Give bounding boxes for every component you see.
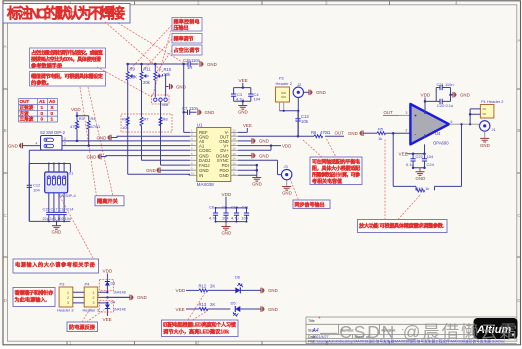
svg-text:GND: GND — [205, 110, 215, 115]
connector J1 — [478, 121, 497, 132]
svg-text:为此电源输入.: 为此电源输入. — [15, 296, 48, 304]
capacitors C15 C17 C16 C14 — [43, 193, 74, 222]
svg-text:3: 3 — [406, 111, 408, 115]
note box: 占空比调节 — [172, 45, 202, 55]
svg-text:的参数。: 的参数。 — [31, 79, 52, 87]
svg-text:A4: A4 — [312, 328, 319, 334]
wire feedback loop — [393, 125, 461, 190]
ground (opamp vee earth) — [412, 166, 426, 181]
svg-text:匹配电阻根据LED亮度和个人习惯: 匹配电阻根据LED亮度和个人习惯 — [163, 321, 237, 329]
capacitor C13 — [295, 111, 309, 138]
svg-text:2: 2 — [93, 296, 95, 300]
svg-text:4.7u: 4.7u — [231, 216, 239, 221]
svg-text:GND: GND — [259, 139, 269, 144]
svg-text:2: 2 — [406, 129, 408, 133]
svg-text:A: A — [4, 44, 7, 49]
capacitor C11 104 — [242, 205, 250, 222]
note box: 香蕉端子 — [13, 288, 55, 307]
chip pin stubs — [190, 132, 238, 175]
wire OUT — [238, 135, 344, 137]
svg-text:GND: GND — [282, 191, 292, 196]
svg-text:GND: GND — [219, 173, 229, 178]
switch S2 SW DIP-2 — [40, 130, 66, 150]
svg-text:C10: C10 — [231, 205, 239, 210]
wire PDI PDO GND tie — [238, 164, 258, 178]
ground (PDI earth) — [252, 178, 262, 187]
capacitor C21 110n — [436, 82, 453, 101]
power VDD (top) — [103, 269, 113, 282]
note box: 电源输入 — [13, 259, 99, 273]
capacitor C7 110n — [182, 106, 199, 115]
node dots on rail — [126, 63, 185, 66]
svg-text:R12: R12 — [199, 284, 207, 289]
note box: 放大功能 — [358, 220, 448, 233]
ground (J3 earth) — [282, 180, 292, 196]
ground GND (power mid) — [107, 295, 146, 301]
capacitor C10 4.7u — [231, 205, 239, 222]
svg-text:104: 104 — [242, 216, 249, 221]
svg-text:GND: GND — [97, 135, 107, 140]
svg-text:Header 2: Header 2 — [276, 81, 293, 86]
svg-text:GND: GND — [268, 288, 278, 293]
connector J2 — [293, 82, 303, 98]
connector J3 sync — [282, 164, 292, 180]
svg-text:GND: GND — [316, 90, 326, 95]
svg-text:15: 15 — [233, 152, 237, 156]
svg-text:13: 13 — [233, 161, 237, 165]
ground GND (J2) — [304, 90, 326, 96]
svg-text:OPA690: OPA690 — [433, 141, 449, 146]
wire GND pin row9 — [146, 167, 190, 173]
svg-text:VDD: VDD — [222, 192, 232, 197]
svg-text:VEE: VEE — [243, 123, 252, 128]
svg-text:VEE: VEE — [239, 78, 248, 83]
svg-text:D6: D6 — [235, 275, 241, 280]
svg-text:占空比调节: 占空比调节 — [174, 47, 200, 54]
power VDD (cap bank) — [222, 192, 232, 208]
svg-text:3: 3 — [93, 301, 95, 305]
svg-text:U1: U1 — [197, 122, 203, 127]
net label VEE (V- pin) — [238, 123, 252, 132]
svg-text:2: 2 — [64, 137, 66, 141]
resistor R4 470 pullup — [77, 116, 100, 147]
ground GND (cap bank) — [48, 220, 65, 234]
resistor R13 2K — [199, 302, 231, 311]
svg-text:C21 110n: C21 110n — [437, 82, 454, 87]
potentiometer R11 — [140, 64, 152, 117]
svg-text:C22: C22 — [416, 154, 424, 159]
svg-text:2K: 2K — [210, 284, 215, 289]
power VDD (opamp) — [421, 93, 437, 115]
svg-text:GND: GND — [259, 153, 269, 158]
svg-text:P3: P3 — [60, 282, 66, 287]
dashed box R group — [121, 114, 172, 132]
capacitor C12 104 — [27, 164, 41, 222]
zone ticks top — [135, 1, 390, 5]
svg-text:占空比通过调定调节节点变化，或者直: 占空比通过调定调节节点变化，或者直 — [31, 49, 104, 57]
svg-text:COSC: COSC — [199, 148, 211, 153]
svg-text:放大功能 可根据具体精度需求调整参数.: 放大功能 可根据具体精度需求调整参数. — [358, 222, 445, 230]
resistor R3 470 pullup — [70, 107, 85, 142]
svg-text:同步信号输出: 同步信号输出 — [295, 202, 325, 209]
resistor R7 10k (in dashed box) — [140, 117, 190, 161]
wire A0 — [62, 140, 190, 142]
svg-text:GND: GND — [222, 231, 232, 236]
svg-text:A: A — [517, 38, 520, 43]
svg-text:1: 1 — [64, 142, 66, 146]
svg-text:R3: R3 — [79, 116, 85, 121]
svg-text:6: 6 — [451, 120, 453, 124]
svg-text:C24: C24 — [427, 162, 435, 167]
svg-text:SW DIP-4: SW DIP-4 — [58, 193, 77, 198]
svg-text:D5: D5 — [231, 301, 237, 306]
note box: amplitude resistor — [30, 72, 106, 87]
note box: balance resistor — [310, 157, 362, 185]
ground (C3C4 earth) — [238, 101, 248, 114]
svg-text:香蕉端子和排针亦: 香蕉端子和排针亦 — [15, 289, 55, 297]
wire COSC — [29, 150, 190, 221]
capacitor C3 4.7u — [231, 86, 251, 102]
svg-text:R15: R15 — [416, 186, 424, 191]
potentiometer R9 50K — [126, 64, 137, 174]
wire DV+ joins VDD — [238, 146, 271, 151]
note box: 频率调节 — [172, 34, 202, 44]
svg-text:S1: S1 — [69, 171, 75, 176]
note box: 同步信号输出 — [293, 200, 330, 209]
svg-text:470Ω: 470Ω — [91, 124, 101, 129]
svg-text:11: 11 — [233, 172, 236, 176]
ground (cap bank earth) — [222, 222, 232, 236]
svg-text:Header 3: Header 3 — [57, 308, 74, 313]
svg-text:GND: GND — [87, 154, 97, 159]
svg-text:104: 104 — [427, 154, 434, 159]
title block — [306, 317, 517, 344]
svg-text:P4: P4 — [85, 282, 91, 287]
ground GND (led1) — [261, 288, 278, 294]
svg-text:GND: GND — [8, 143, 18, 148]
svg-text:0: 0 — [51, 111, 54, 116]
svg-text:3: 3 — [67, 301, 69, 305]
svg-text:GND: GND — [146, 168, 156, 173]
svg-text:W6: W6 — [162, 102, 169, 107]
svg-text:—CSDN @晨借懒云霜: —CSDN @晨借懒云霜 — [320, 322, 517, 342]
capacitor C9 104 — [222, 205, 229, 222]
capacitor C20 0.1u — [437, 93, 453, 107]
svg-text:Title: Title — [308, 319, 315, 323]
wire top rail — [128, 63, 184, 65]
wire R10 wiper to GND branch — [166, 74, 169, 97]
capacitor C4 104 — [248, 92, 261, 102]
svg-text:接拨到占空比为50%，具体使用请: 接拨到占空比为50%，具体使用请 — [31, 55, 102, 63]
svg-text:+: + — [414, 114, 417, 120]
note box: 标注NC的默认为不焊接 — [3, 4, 130, 24]
svg-text:频率调节: 频率调节 — [174, 36, 194, 43]
svg-text:110n: 110n — [191, 58, 201, 63]
note box: LED current — [162, 320, 239, 337]
svg-text:防电源反接: 防电源反接 — [69, 323, 96, 331]
svg-text:17: 17 — [233, 142, 237, 146]
svg-text:阻，具体大小根据适配: 阻，具体大小根据适配 — [312, 165, 360, 172]
ground GND + resistor R5 1k (inverting input) — [348, 127, 410, 142]
ground GND (DGND pin) — [238, 153, 269, 159]
svg-text:DV+: DV+ — [220, 148, 229, 153]
diode D4 1N4148 — [105, 301, 126, 317]
svg-text:470Ω: 470Ω — [320, 130, 330, 135]
svg-text:4: 4 — [36, 142, 38, 146]
svg-text:1R: 1R — [187, 65, 192, 70]
switch S1 SW DIP-4 — [45, 164, 77, 198]
zone ticks sides — [3, 89, 521, 257]
svg-text:GND: GND — [416, 176, 426, 181]
svg-text:VDD: VDD — [176, 288, 186, 293]
svg-text:20k: 20k — [164, 72, 172, 77]
svg-text:GND: GND — [207, 62, 217, 67]
svg-text:频率控制电: 频率控制电 — [174, 19, 200, 26]
ground GND (led2) — [261, 306, 278, 312]
svg-text:12: 12 — [233, 166, 237, 170]
svg-text:0.1u: 0.1u — [406, 162, 414, 167]
note box: 频率控制电压输出 — [172, 18, 202, 32]
capacitor C22 0.1u — [406, 154, 425, 168]
svg-text:0: 0 — [41, 111, 44, 116]
svg-text:1: 1 — [41, 105, 44, 110]
svg-text:考相关电容值: 考相关电容值 — [312, 178, 342, 185]
net label OUT (opamp input) — [383, 110, 410, 115]
wire P2/J2 to OUT — [280, 98, 299, 137]
ground GND (chip GND pin row2) — [97, 135, 191, 141]
svg-text:2K: 2K — [210, 302, 215, 307]
svg-text:R6: R6 — [311, 130, 317, 135]
svg-text:C11: C11 — [242, 205, 249, 210]
svg-text:VEE: VEE — [399, 152, 408, 157]
svg-text:R13: R13 — [199, 302, 207, 307]
svg-text:B: B — [4, 128, 7, 133]
capacitor C24 104 — [422, 154, 435, 168]
zone ticks bottom — [67, 341, 390, 345]
svg-text:GND: GND — [480, 143, 490, 148]
svg-text:1N4148: 1N4148 — [113, 308, 126, 312]
svg-text:电源输入的大小请参考相关手册: 电源输入的大小请参考相关手册 — [15, 261, 96, 269]
svg-text:P2: P2 — [279, 76, 285, 81]
net label VDD (V+ pin) — [238, 144, 291, 149]
note box: 隔离开关 — [95, 196, 124, 206]
svg-text:B: B — [517, 128, 520, 133]
svg-text:GND: GND — [460, 93, 470, 98]
svg-text:OUT: OUT — [384, 110, 394, 115]
svg-text:1: 1 — [51, 117, 54, 122]
svg-text:VDD: VDD — [103, 269, 113, 274]
svg-text:幅值调节电阻，可根据具体需设定: 幅值调节电阻，可根据具体需设定 — [31, 72, 104, 80]
wire SYNC to J3 — [238, 160, 282, 174]
resistor R8 10k (in dashed box) — [159, 117, 168, 126]
svg-text:S2 SW DIP-2: S2 SW DIP-2 — [40, 130, 66, 135]
svg-text:16: 16 — [233, 147, 237, 151]
svg-text:50K: 50K — [130, 75, 138, 80]
diode D3 1N4148 — [105, 282, 126, 295]
svg-text:R4: R4 — [91, 116, 97, 121]
svg-text:105: 105 — [301, 119, 309, 124]
dashed box D4 — [100, 301, 114, 313]
dashed box W6 jumper — [152, 95, 170, 104]
truth table — [19, 99, 58, 123]
op chip U1 MAX038 — [190, 122, 238, 187]
jumper W6 — [154, 98, 169, 107]
svg-text:VDD: VDD — [71, 107, 81, 112]
wire power rows — [73, 292, 130, 303]
note box: duty cycle explanation — [30, 48, 106, 69]
svg-text:104: 104 — [254, 96, 261, 101]
svg-text:可在同轴适配的平衡电: 可在同轴适配的平衡电 — [312, 159, 360, 166]
svg-text:C8: C8 — [209, 205, 214, 210]
node dots DIP4 rail — [48, 163, 65, 165]
leader lines — [60, 22, 421, 322]
svg-text:隔离开关: 隔离开关 — [97, 197, 119, 205]
header P1 — [469, 99, 504, 124]
power VEE (led2) — [176, 307, 200, 312]
svg-text:GND: GND — [268, 307, 278, 312]
svg-text:20k: 20k — [143, 80, 151, 85]
svg-text:10k: 10k — [122, 125, 128, 130]
svg-text:Header 3: Header 3 — [83, 308, 100, 313]
svg-text:GND: GND — [176, 84, 186, 89]
ground (J1 earth) — [480, 131, 490, 148]
svg-text:参考数据手册: 参考数据手册 — [31, 61, 63, 69]
svg-text:压输出: 压输出 — [174, 25, 189, 32]
wire IN row — [128, 174, 190, 175]
power VDD (led1) — [176, 288, 200, 293]
svg-text:所需参数设计计算，可参: 所需参数设计计算，可参 — [312, 172, 360, 179]
svg-text:D3: D3 — [111, 282, 116, 286]
svg-text:19: 19 — [233, 132, 237, 136]
chip pin numbers — [191, 129, 236, 176]
dashed box D3 — [100, 280, 114, 291]
svg-text:A0: A0 — [49, 99, 55, 104]
ground GND (wiper) — [170, 84, 186, 90]
svg-text:A1: A1 — [39, 99, 45, 104]
svg-text:C15 C17 C16 C14: C15 C17 C16 C14 — [43, 208, 74, 212]
power VEE — [239, 78, 248, 88]
op-amp U4 OPA690 — [406, 104, 453, 146]
potentiometer R10 20k — [154, 64, 172, 97]
svg-text:0: 0 — [41, 117, 44, 122]
svg-text:OUT: OUT — [20, 99, 30, 104]
svg-text:C20 0.1u: C20 0.1u — [437, 103, 453, 108]
svg-text:4.7u: 4.7u — [209, 216, 217, 221]
resistor R12 2K — [199, 284, 236, 292]
svg-text:调节大小，高亮LED建议10k: 调节大小，高亮LED建议10k — [163, 328, 229, 336]
header P2 — [276, 76, 293, 111]
capacitor C8 4.7u — [209, 205, 247, 222]
resistor R6 470 (series) — [311, 130, 330, 138]
svg-text:VDD: VDD — [282, 144, 291, 149]
LED D5 — [231, 301, 262, 317]
svg-text:R8: R8 — [163, 117, 169, 122]
svg-text:R7: R7 — [144, 117, 150, 122]
wire A1 — [62, 145, 190, 147]
svg-text:P1 Header 2: P1 Header 2 — [481, 99, 504, 104]
svg-text:104: 104 — [33, 188, 40, 193]
header P4 — [83, 282, 100, 313]
svg-text:1: 1 — [93, 291, 95, 295]
svg-text:D4: D4 — [111, 301, 116, 305]
power VEE (opamp) — [399, 144, 426, 156]
svg-text:18: 18 — [233, 137, 237, 141]
Altium logo — [474, 318, 518, 339]
note box: 防电源反接 — [67, 322, 98, 332]
wire W6 middle down to FADJ — [161, 101, 191, 165]
capacitor C25 — [183, 58, 201, 70]
svg-text:IN: IN — [199, 173, 203, 178]
svg-text:U4: U4 — [435, 131, 441, 136]
svg-text:R2: R2 — [122, 117, 128, 122]
svg-text:C7: C7 — [182, 106, 188, 111]
wire REF bus — [184, 64, 190, 132]
ground GND (S2 left) — [8, 142, 41, 149]
svg-text:GND: GND — [137, 295, 147, 300]
svg-text:GND: GND — [52, 230, 62, 235]
svg-text:1: 1 — [67, 291, 69, 295]
svg-text:VEE: VEE — [103, 317, 112, 322]
svg-text:2: 2 — [67, 296, 69, 300]
resistor R15 1k (feedback) — [416, 186, 430, 192]
svg-text:22p 1n1 102 104: 22p 1n1 102 104 — [43, 217, 72, 221]
ground GND (top rail) — [200, 61, 217, 67]
wire GND pin row6 — [87, 154, 191, 160]
svg-text:104: 104 — [222, 216, 229, 221]
svg-text:R11: R11 — [144, 67, 152, 72]
svg-text:VEE: VEE — [176, 307, 185, 312]
resistor R2 10k (in dashed box) — [122, 117, 129, 131]
svg-text:470Ω: 470Ω — [70, 124, 80, 129]
svg-text:MAX038: MAX038 — [197, 182, 214, 187]
svg-text:R5: R5 — [378, 127, 384, 132]
svg-text:10: 10 — [191, 172, 195, 176]
LED D6 — [235, 275, 261, 294]
ground GND (C7) — [198, 110, 214, 116]
svg-text:三角波: 三角波 — [20, 116, 34, 123]
svg-text:R9: R9 — [130, 67, 136, 72]
header P3 — [57, 282, 74, 313]
svg-text:OUT: OUT — [335, 131, 345, 136]
svg-text:GND: GND — [252, 182, 262, 187]
ground GND (chip right GND) — [238, 138, 269, 144]
svg-text:1N4148: 1N4148 — [113, 291, 126, 295]
svg-text:VDD: VDD — [421, 93, 431, 98]
svg-text:14: 14 — [233, 157, 237, 161]
svg-text:110n: 110n — [189, 106, 199, 111]
svg-text:1k: 1k — [378, 136, 382, 141]
svg-text:1k: 1k — [425, 186, 429, 191]
wire opamp output — [449, 123, 478, 126]
svg-text:GND: GND — [348, 131, 358, 136]
svg-text:GND: GND — [238, 110, 248, 115]
ground GND (opamp vdd caps) — [451, 92, 470, 98]
